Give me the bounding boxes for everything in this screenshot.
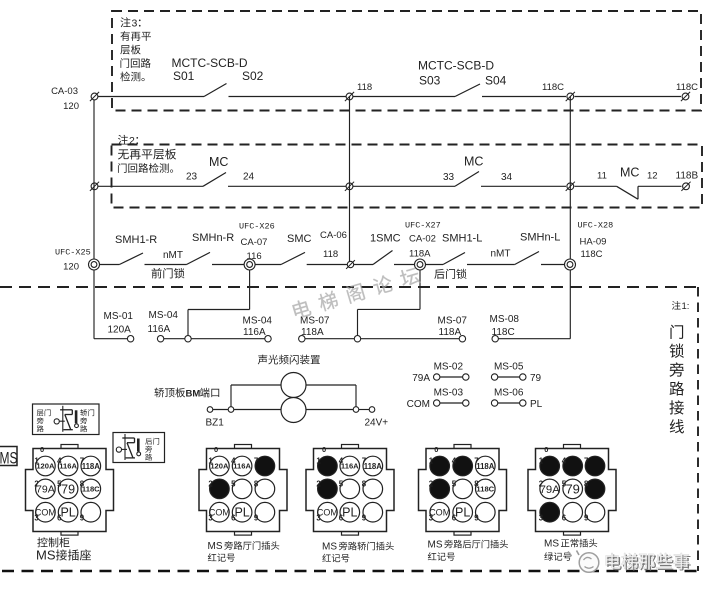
svg-text:6: 6 — [339, 514, 344, 523]
svg-text:118A: 118A — [364, 462, 383, 471]
svg-text:1: 1 — [316, 457, 321, 466]
svg-text:MC: MC — [464, 155, 483, 169]
svg-text:118A: 118A — [476, 462, 495, 471]
svg-text:MS-04: MS-04 — [243, 316, 273, 327]
svg-text:0: 0 — [322, 445, 326, 454]
svg-text:8: 8 — [254, 479, 259, 488]
svg-text:3: 3 — [316, 514, 321, 523]
svg-text:1:: 1: — [682, 301, 690, 312]
svg-text:118C: 118C — [82, 485, 100, 494]
svg-text:4: 4 — [452, 457, 457, 466]
svg-text:MCTC-SCB-D: MCTC-SCB-D — [172, 56, 248, 70]
svg-text:2: 2 — [429, 479, 434, 488]
svg-text:HA-09: HA-09 — [580, 237, 607, 248]
svg-text:7: 7 — [254, 457, 258, 466]
svg-text:8: 8 — [80, 479, 85, 488]
svg-text:120: 120 — [63, 101, 79, 112]
svg-text:PL: PL — [234, 506, 249, 520]
svg-text:7: 7 — [362, 457, 366, 466]
svg-text:116A: 116A — [59, 462, 77, 471]
svg-text:1SMC: 1SMC — [370, 233, 401, 245]
svg-text:5: 5 — [562, 479, 567, 488]
svg-text:9: 9 — [474, 514, 479, 523]
svg-text:PL: PL — [60, 506, 75, 520]
svg-text:79: 79 — [530, 373, 542, 384]
svg-text:9: 9 — [80, 514, 85, 523]
svg-text:118C: 118C — [542, 82, 564, 93]
svg-text:MS-01: MS-01 — [104, 311, 134, 322]
svg-text:5: 5 — [231, 479, 236, 488]
svg-text:79A: 79A — [412, 373, 430, 384]
svg-text:CA-06: CA-06 — [320, 230, 347, 241]
svg-text:120A: 120A — [36, 462, 55, 471]
svg-text:SMHn-R: SMHn-R — [192, 232, 234, 244]
svg-text:CA-03: CA-03 — [51, 86, 78, 97]
svg-text:MS-08: MS-08 — [490, 314, 520, 325]
svg-text:2: 2 — [34, 479, 39, 488]
svg-text:6: 6 — [562, 514, 567, 523]
svg-text:UFC-X28: UFC-X28 — [578, 221, 614, 231]
svg-text:118C: 118C — [476, 485, 494, 494]
svg-text:118A: 118A — [301, 327, 324, 338]
svg-text:SMH1-R: SMH1-R — [115, 234, 157, 246]
svg-text:116: 116 — [247, 251, 262, 262]
svg-text:3: 3 — [429, 514, 434, 523]
svg-text:118: 118 — [323, 249, 338, 260]
svg-text:nMT: nMT — [163, 250, 183, 261]
svg-text:8: 8 — [474, 479, 479, 488]
svg-text:24: 24 — [243, 172, 255, 183]
svg-text:5: 5 — [57, 479, 62, 488]
svg-text:116A: 116A — [233, 462, 251, 471]
svg-text:MS: MS — [208, 541, 223, 552]
svg-text:118A: 118A — [82, 462, 101, 471]
svg-text:3: 3 — [34, 514, 39, 523]
svg-text:9: 9 — [362, 514, 367, 523]
svg-text:116A: 116A — [148, 324, 171, 335]
svg-text:PL: PL — [455, 506, 470, 520]
svg-text:0: 0 — [434, 445, 438, 454]
svg-text:7: 7 — [584, 457, 588, 466]
svg-text:1: 1 — [429, 457, 434, 466]
svg-text:2: 2 — [316, 479, 321, 488]
svg-text:3: 3 — [132, 18, 138, 30]
svg-text:120: 120 — [63, 262, 79, 273]
svg-text:0: 0 — [40, 445, 44, 454]
svg-text:MS-07: MS-07 — [438, 316, 468, 327]
svg-text:MC: MC — [620, 166, 639, 180]
svg-text:33: 33 — [443, 172, 455, 183]
svg-text:116A: 116A — [243, 327, 266, 338]
svg-text:8: 8 — [362, 479, 367, 488]
svg-text:118C: 118C — [676, 82, 698, 93]
svg-text:118A: 118A — [409, 249, 431, 260]
svg-text:6: 6 — [57, 514, 62, 523]
svg-text:118B: 118B — [676, 171, 699, 182]
svg-text:2: 2 — [208, 479, 213, 488]
svg-text:MS: MS — [0, 449, 18, 468]
svg-text:12: 12 — [647, 171, 658, 182]
svg-text:120A: 120A — [108, 325, 132, 336]
svg-text:1: 1 — [34, 457, 39, 466]
svg-text:118: 118 — [357, 82, 372, 93]
svg-text:7: 7 — [80, 457, 84, 466]
svg-text:0: 0 — [214, 445, 218, 454]
svg-text:24V+: 24V+ — [365, 418, 389, 429]
svg-text:MS: MS — [428, 540, 443, 551]
svg-text:CA-02: CA-02 — [409, 234, 436, 245]
svg-text:7: 7 — [474, 457, 478, 466]
svg-text:3: 3 — [208, 514, 213, 523]
svg-text:8: 8 — [584, 479, 589, 488]
svg-text:BZ1: BZ1 — [206, 418, 225, 429]
svg-text:SMC: SMC — [287, 233, 312, 245]
svg-text:SMHn-L: SMHn-L — [520, 232, 560, 244]
svg-text:SMH1-L: SMH1-L — [442, 233, 482, 245]
svg-text:4: 4 — [57, 457, 62, 466]
svg-text:MS: MS — [544, 539, 559, 550]
svg-text:S03: S03 — [419, 74, 441, 88]
svg-text:3: 3 — [539, 514, 544, 523]
svg-text:4: 4 — [562, 457, 567, 466]
svg-text:11: 11 — [597, 171, 607, 182]
svg-text:6: 6 — [231, 514, 236, 523]
svg-text:118C: 118C — [492, 327, 515, 338]
svg-text:120A: 120A — [210, 462, 229, 471]
svg-text:5: 5 — [339, 479, 344, 488]
svg-text:4: 4 — [339, 457, 344, 466]
svg-text:9: 9 — [254, 514, 259, 523]
svg-text:S02: S02 — [242, 69, 264, 83]
svg-text:23: 23 — [186, 172, 198, 183]
svg-text:COM: COM — [407, 399, 430, 410]
svg-text:PL: PL — [342, 506, 357, 520]
svg-text:0: 0 — [544, 445, 548, 454]
svg-text:34: 34 — [501, 172, 513, 183]
svg-text:1: 1 — [539, 457, 544, 466]
svg-text:nMT: nMT — [491, 249, 511, 260]
svg-text:MCTC-SCB-D: MCTC-SCB-D — [418, 59, 494, 73]
svg-text:5: 5 — [452, 479, 457, 488]
svg-text:PL: PL — [530, 399, 543, 410]
svg-text:BM: BM — [186, 389, 201, 400]
svg-text:UFC-X27: UFC-X27 — [405, 221, 441, 231]
svg-text:S01: S01 — [173, 69, 195, 83]
svg-text:UFC-X25: UFC-X25 — [55, 248, 91, 258]
svg-text:2: 2 — [129, 135, 135, 147]
svg-text:S04: S04 — [485, 74, 507, 88]
svg-text:6: 6 — [452, 514, 457, 523]
svg-text:MS-05: MS-05 — [494, 362, 524, 373]
svg-text:79A: 79A — [36, 484, 55, 496]
svg-text:UFC-X26: UFC-X26 — [239, 222, 275, 232]
svg-text:MS-06: MS-06 — [494, 388, 524, 399]
svg-text:118C: 118C — [581, 249, 603, 260]
svg-text:116A: 116A — [341, 462, 359, 471]
svg-text:MS-04: MS-04 — [149, 310, 179, 321]
svg-text:MS-03: MS-03 — [434, 388, 464, 399]
svg-text:CA-07: CA-07 — [241, 237, 268, 248]
svg-text:2: 2 — [539, 479, 544, 488]
svg-text:79: 79 — [61, 482, 75, 496]
svg-text:MS-02: MS-02 — [434, 362, 464, 373]
svg-text:79: 79 — [565, 482, 579, 497]
svg-text:1: 1 — [208, 457, 213, 466]
svg-text:MS: MS — [36, 548, 56, 563]
svg-text:9: 9 — [584, 514, 589, 523]
svg-text:MS: MS — [322, 542, 337, 553]
svg-text:MC: MC — [209, 155, 228, 169]
svg-text:118A: 118A — [439, 327, 462, 338]
svg-text:4: 4 — [231, 457, 236, 466]
